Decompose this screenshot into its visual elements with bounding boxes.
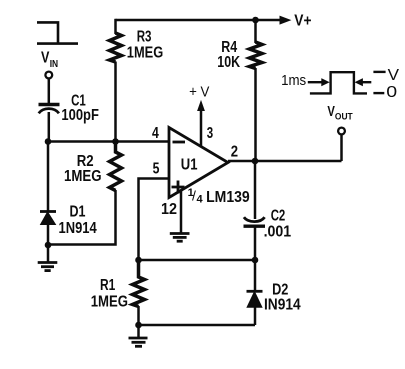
capacitor C1 (39, 105, 60, 114)
wire C1 to node A (48, 112, 51, 142)
svg-text:100pF: 100pF (61, 107, 99, 124)
wire bottom node to ground (137, 325, 140, 338)
node A C1/D1/pin4 (45, 138, 52, 145)
svg-text:C2: C2 (271, 207, 286, 224)
capacitor C2 (244, 217, 266, 226)
wire D1 to node B (47, 224, 50, 262)
wire VIN terminal to C1 (48, 79, 51, 103)
svg-text:+ V: + V (189, 84, 209, 101)
minus sign pin4 (173, 141, 186, 144)
wire pin5 (139, 179, 170, 261)
svg-text:1MEG: 1MEG (91, 294, 128, 311)
svg-text:IN: IN (50, 59, 58, 70)
wire pin4 (48, 140, 169, 143)
node pin5/R1 (135, 257, 142, 264)
svg-text:R1: R1 (100, 277, 116, 294)
diode D1 (40, 212, 56, 225)
V+ arrowhead (280, 16, 290, 24)
diode D2 (247, 291, 263, 307)
wire feedback node row (139, 259, 256, 262)
svg-text:U1: U1 (181, 157, 198, 174)
wire output pin2 (228, 160, 342, 163)
arrowhead +V (198, 102, 204, 111)
svg-text:3: 3 (207, 125, 214, 142)
wire D2 to bottom rail corner (254, 306, 257, 325)
wire R3 column top (114, 19, 117, 34)
node VOUT terminal (338, 128, 345, 135)
resistor R2 (110, 142, 122, 191)
svg-text:IN914: IN914 (264, 296, 301, 313)
svg-text:.001: .001 (264, 224, 292, 241)
wire R4 to output node (254, 68, 257, 161)
node output R4/pin2 (252, 158, 259, 165)
wire node D to D2 (254, 260, 257, 291)
resistor R4 (250, 42, 263, 69)
svg-text:4: 4 (197, 193, 204, 205)
output pulse waveform symbol (308, 72, 386, 94)
node R1 bottom/ground (135, 322, 142, 329)
wire R1 to bottom node (137, 306, 140, 325)
svg-text:1ms: 1ms (281, 72, 306, 89)
wire R2 bottom to node B (48, 190, 116, 245)
ground under R1 (129, 338, 148, 346)
svg-text:4: 4 (152, 125, 159, 142)
node top rail R4 (252, 17, 259, 24)
ground under D1 (38, 263, 58, 271)
svg-text:5: 5 (153, 161, 160, 178)
svg-text:1N914: 1N914 (59, 220, 98, 237)
svg-text:1MEG: 1MEG (64, 168, 102, 185)
node B D1/R2 ground (45, 242, 52, 249)
node D C2/D2 (252, 257, 259, 264)
ground under pin12 (170, 234, 190, 242)
svg-text:12: 12 (161, 201, 177, 218)
wire bottom rail (139, 324, 256, 327)
node C R3/R2/pin4 (112, 138, 119, 145)
wire R4 column (254, 20, 257, 43)
svg-text:10K: 10K (217, 54, 240, 71)
plus sign pin5 (172, 181, 185, 194)
svg-text:2: 2 (231, 144, 238, 161)
svg-text:1MEG: 1MEG (127, 45, 163, 62)
svg-text:V: V (41, 49, 50, 66)
wire node A down to D1 (47, 142, 50, 212)
svg-text:D1: D1 (70, 204, 86, 221)
wire output node to C2 (254, 161, 257, 219)
svg-text:0: 0 (386, 84, 397, 101)
svg-text:/: / (192, 188, 196, 204)
svg-text:V: V (388, 67, 400, 84)
wire VOUT riser (340, 134, 343, 161)
wire R3 to node C (114, 62, 117, 142)
arrowhead 1ms right (322, 79, 329, 85)
arrowhead pulse width left (356, 79, 363, 85)
resistor R3 (110, 33, 122, 62)
svg-text:OUT: OUT (335, 112, 353, 123)
input pulse waveform symbol (37, 22, 78, 43)
wire top rail (116, 19, 282, 22)
wire pin3 +V (200, 108, 203, 146)
svg-text:V+: V+ (294, 12, 311, 29)
op-amp U1 (169, 128, 228, 198)
svg-text:R3: R3 (137, 29, 152, 46)
wire C2 to node D (254, 228, 257, 261)
wire pin12 (180, 191, 183, 234)
svg-text:LM139: LM139 (206, 189, 250, 206)
node VIN terminal (45, 72, 52, 79)
resistor R1 (133, 260, 145, 307)
